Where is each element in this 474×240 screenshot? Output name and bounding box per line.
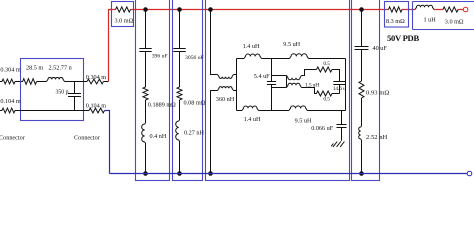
svg-text:0.104 m: 0.104 m [86,103,106,110]
inductor upper-left winding [218,75,234,79]
resistor 3.0 mOhm (left) [116,7,131,12]
box PDB output [413,2,474,30]
resistor 3.0 mOhm (right) [443,7,458,12]
wire row1 rise [302,70,317,76]
svg-text:350 p: 350 p [56,89,69,95]
box bulk cap branch 2 [173,0,203,181]
resistor 0.1889 mOhm [143,87,148,100]
svg-text:28.5 m: 28.5 m [26,65,43,72]
inductor 2.52 nH [359,126,362,140]
node column1 top [143,7,148,12]
svg-text:5.4 uF: 5.4 uF [254,73,270,80]
resistor 0.08 mOhm [177,87,182,100]
svg-text:0.066 uF: 0.066 uF [311,125,334,132]
inductor 0.27 nH [176,120,180,141]
svg-text:3.0 mΩ: 3.0 mΩ [445,18,464,25]
wire node X vertical [234,59,245,111]
capacitor 396 uF [139,49,151,52]
svg-text:0.104 m: 0.104 m [0,98,20,105]
box output cap branch [352,0,380,181]
wire J1 row [272,76,287,88]
inductor 2.52.77 n [47,78,65,82]
wire top-left stub [0,81,2,83]
resistor 0.5 (lower) [317,91,333,96]
wire lower [259,110,289,112]
node filter input top [208,7,213,12]
svg-text:2.52 nH: 2.52 nH [366,134,387,141]
svg-text:9.5 uH: 9.5 uH [283,41,300,48]
wire return rail [110,173,468,175]
inductor 0.4 nH [142,123,146,143]
capacitor 14.6 uF [333,82,345,85]
svg-text:40 uF: 40 uF [373,45,388,52]
inductor row1 (damping leg) [287,76,302,80]
wire red riser [109,10,112,82]
inductor 1.4 uH (top) [244,54,262,58]
svg-text:3056 uF: 3056 uF [185,55,204,61]
connector model box [21,59,84,121]
wire [37,81,47,83]
svg-text:0.4 nH: 0.4 nH [150,133,167,140]
wire row2 drop [302,88,317,94]
svg-text:3.0 mΩ: 3.0 mΩ [115,17,134,24]
wire down to lower wire [234,91,243,111]
capacitor 350 p [74,82,76,94]
resistor 0.304 m (left top) [2,79,15,84]
capacitor 0.066 uF [341,111,343,141]
wire column 1 [145,10,147,174]
wire output branch [361,10,363,174]
svg-text:50V PDB: 50V PDB [387,33,419,43]
wire top [262,58,290,60]
svg-text:14.6 u: 14.6 u [333,86,346,92]
inductor 1.5 uH (row2) [287,83,302,87]
inductor 9.5 uH (lower) [289,106,307,111]
node filter input bottom [208,171,213,176]
node output branch bottom [359,171,364,176]
wire lower to right edge [307,110,345,112]
inductor 1 uH [415,5,434,9]
svg-text:0.304 m: 0.304 m [0,67,20,74]
node column2 top [177,7,182,12]
wire to red riser [104,81,109,83]
terminal +50V output [463,7,468,12]
wire +50V red rail [110,9,463,11]
resistor 8.3 mOhm [389,7,403,12]
svg-text:Connector: Connector [0,135,25,142]
wire top to right edge [309,58,346,60]
inductor 9.5 uH (top) [290,54,309,59]
svg-text:0.5: 0.5 [323,61,330,67]
svg-text:9.5 uH: 9.5 uH [295,118,312,125]
wire into box top [15,81,23,83]
wire blue riser to bottom rail [105,111,110,174]
wire bottom-left stub [0,110,2,112]
svg-text:Connector: Connector [74,135,100,142]
svg-text:0.27 nH: 0.27 nH [184,129,204,136]
terminal return output [467,171,472,176]
capacitor 40 uF [355,47,369,50]
capacitor 3056 uF [173,49,185,52]
wire to 14.6uF cap [332,70,340,82]
box bulk cap branch 1 [136,0,170,181]
svg-text:2.52.77 n: 2.52.77 n [49,65,72,72]
node column1 bottom [143,171,148,176]
svg-text:1.4 uH: 1.4 uH [243,43,260,50]
svg-text:1 uH: 1 uH [424,17,437,24]
node output branch top [359,7,364,12]
resistor 0.304 m (right top) [87,79,104,84]
resistor 0.104 m (left bottom) [2,108,15,113]
svg-text:396 uF: 396 uF [152,53,168,59]
wire column 2 [179,10,181,174]
resistor 0.5 (upper) [317,67,333,72]
svg-text:0.1889 mΩ: 0.1889 mΩ [148,102,176,109]
ground [331,142,344,147]
capacitor 5.4 uF [271,59,273,111]
svg-text:0.93 mΩ: 0.93 mΩ [366,90,389,97]
svg-text:0.304 m: 0.304 m [86,74,106,81]
resistor 0.104 m (right bottom) [89,108,105,113]
wire through box bottom [15,110,89,112]
inductor 1.4 uH (lower) [242,106,259,110]
wire to box right edge [65,81,88,83]
wire filter input from rail [211,10,218,75]
box series resistor [112,2,134,27]
svg-text:360 nH: 360 nH [216,96,235,103]
resistor 0.93 mOhm [359,81,364,98]
wire right edge of filter [345,59,347,111]
box filter network [206,0,350,181]
wire to cap bottom [332,93,340,95]
resistor 28.5 m [23,79,37,85]
svg-text:1.4 uH: 1.4 uH [244,116,261,123]
box 8.3 mOhm [385,2,409,28]
node column2 bottom [177,171,182,176]
inductor 360 nH (lower-left winding) [211,91,218,174]
svg-text:0.5: 0.5 [323,96,330,102]
svg-text:8.3 mΩ: 8.3 mΩ [386,18,405,25]
svg-text:0.08 mΩ: 0.08 mΩ [184,99,206,106]
